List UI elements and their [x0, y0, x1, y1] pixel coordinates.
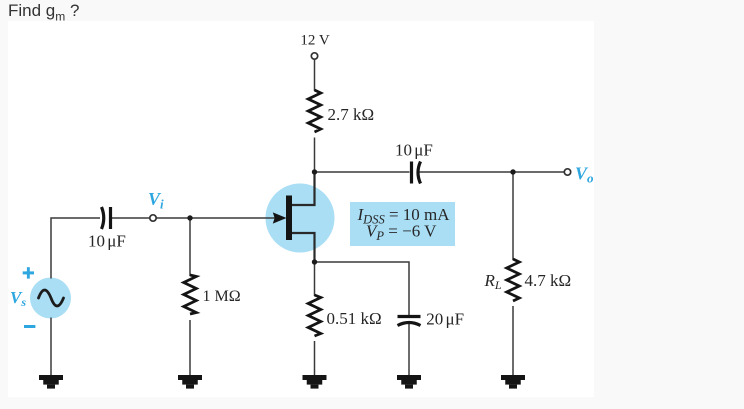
label: minus sign	[24, 325, 35, 328]
svg-text:1 MΩ: 1 MΩ	[203, 288, 241, 305]
svg-text:0.51 kΩ: 0.51 kΩ	[327, 309, 382, 328]
resistor 0.51 kOhm	[308, 295, 321, 336]
ground (RL branch)	[501, 375, 525, 389]
wire: RL resistor to ground	[512, 306, 514, 375]
wire: input from Vs top to input cap	[51, 218, 100, 279]
wire: source node to Rs resistor	[314, 262, 316, 296]
wire: output cap to Vo terminal	[419, 171, 565, 173]
wire: Vs bottom to ground	[50, 318, 52, 376]
wire: 12V terminal to resistor 2.7k	[314, 60, 316, 92]
wire: 1M resistor to ground	[189, 320, 191, 375]
wire: Rs resistor to ground	[314, 341, 316, 375]
wire: drain trunk (resistor bottom to JFET drain corner)	[314, 138, 316, 206]
Vs source circle	[30, 278, 71, 319]
resistor RL 4.7 kOhm	[507, 259, 520, 301]
wire: gate node down to 1M resistor	[189, 218, 191, 276]
resistor 1 MOhm	[184, 275, 197, 314]
ground (1M branch)	[178, 375, 202, 389]
node: gate/1M node	[187, 215, 192, 220]
Vs sine symbol	[39, 290, 64, 306]
capacitor CS 20uF bypass	[398, 317, 421, 326]
ground (Vs branch)	[39, 375, 63, 389]
wire: input cap to gate arrow	[110, 217, 276, 219]
capacitor C1 10uF input coupling	[102, 207, 111, 229]
svg-text:4.7 kΩ: 4.7 kΩ	[525, 271, 572, 290]
wire: bypass cap to ground	[408, 324, 410, 375]
terminal: Vo	[564, 169, 570, 175]
node: drain node	[312, 169, 317, 174]
capacitor C2 10uF output coupling	[412, 162, 421, 184]
node: output/RL node	[510, 169, 515, 174]
white drawing panel	[8, 21, 594, 397]
terminal: Vi	[150, 215, 156, 221]
JFET Q1 gate arrow	[273, 212, 287, 223]
wire: drain node to output cap	[315, 171, 410, 173]
label: plus sign	[23, 267, 34, 278]
svg-text:2.7 kΩ: 2.7 kΩ	[328, 105, 375, 124]
svg-text:10 μF: 10 μF	[88, 231, 126, 250]
node: source node	[312, 259, 317, 264]
terminal: 12V	[311, 53, 317, 59]
label: IDSS / VP parameter box	[350, 202, 455, 246]
svg-text:20 μF: 20 μF	[426, 309, 464, 328]
resistor 2.7 kOhm	[308, 90, 321, 132]
svg-text:12 V: 12 V	[300, 33, 329, 49]
wire: source node to bypass cap branch	[315, 262, 410, 315]
ground (bypass cap branch)	[397, 375, 421, 389]
JFET Q1 gate bar	[286, 196, 292, 241]
svg-text:10 μF: 10 μF	[395, 141, 433, 160]
wire: RL node down to RL resistor	[512, 172, 514, 260]
JFET Q1 drain lead	[292, 172, 315, 205]
ground (Rs branch)	[303, 375, 327, 389]
JFET Q1 source lead	[292, 233, 315, 262]
JFET Q1 highlight circle	[266, 184, 335, 253]
